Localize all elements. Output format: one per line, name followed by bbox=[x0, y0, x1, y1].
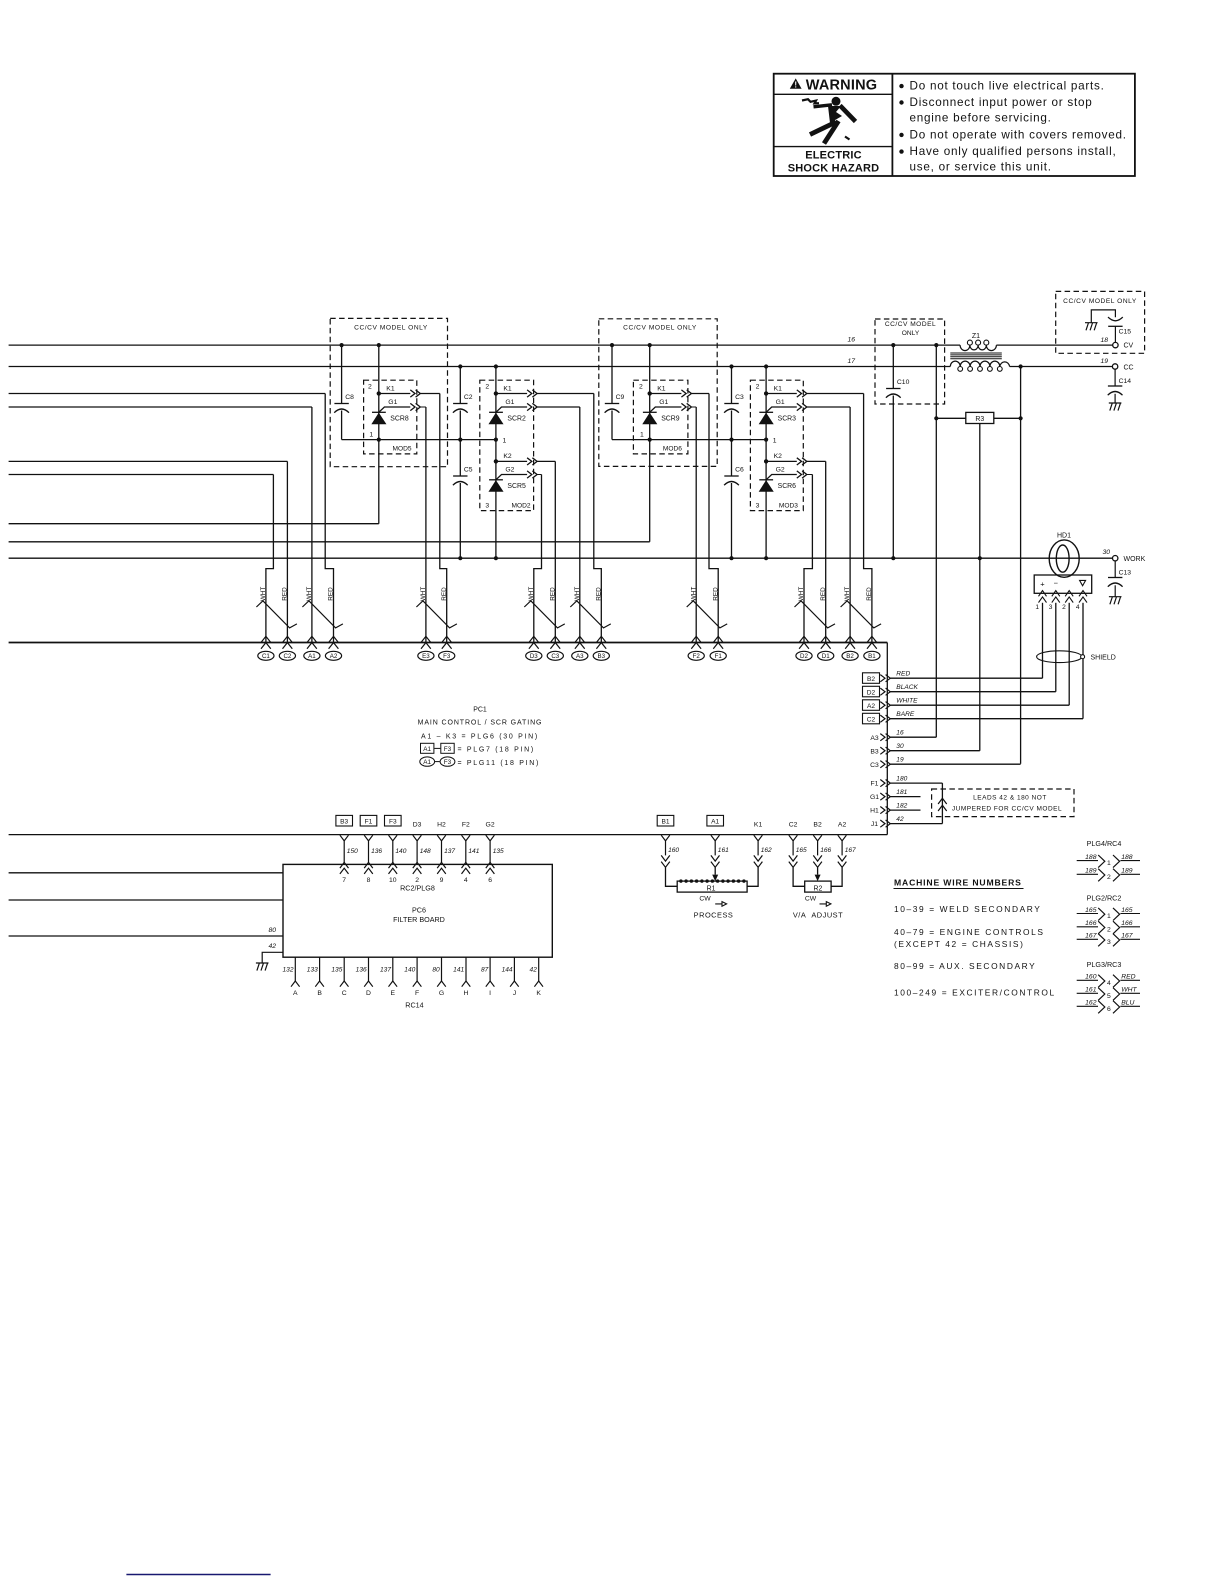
svg-text:136: 136 bbox=[371, 848, 382, 855]
svg-text:RED: RED bbox=[441, 587, 448, 601]
C6 bottom lead bbox=[731, 483, 733, 558]
WHT label D3 bbox=[528, 587, 535, 602]
pin F1 bbox=[710, 636, 726, 660]
pin D1 bbox=[818, 636, 834, 660]
warning header divider bbox=[774, 93, 893, 95]
RED label C2 bbox=[282, 587, 289, 601]
svg-text:(EXCEPT 42 = CHASSIS): (EXCEPT 42 = CHASSIS) bbox=[894, 939, 1025, 949]
svg-text:1: 1 bbox=[1107, 860, 1111, 867]
svg-text:MAIN CONTROL / SCR GATING: MAIN CONTROL / SCR GATING bbox=[418, 720, 543, 727]
MOD5 box bbox=[364, 380, 417, 454]
SCR9 gate lead G1 bbox=[650, 407, 682, 412]
svg-text:1: 1 bbox=[1107, 913, 1111, 920]
wire drop to pin C1 bbox=[266, 475, 274, 643]
pin bus line bbox=[9, 642, 888, 644]
terminal CV (18) bbox=[1113, 342, 1118, 347]
svg-text:A1: A1 bbox=[423, 746, 431, 753]
svg-text:G2: G2 bbox=[776, 466, 785, 473]
pin A1 bbox=[304, 636, 320, 660]
C3-C6 middle lead bbox=[731, 411, 733, 477]
svg-text:132: 132 bbox=[282, 967, 293, 974]
Z1 primary coil bbox=[960, 345, 996, 351]
svg-text:4: 4 bbox=[1076, 604, 1080, 611]
warning triangle icon bbox=[790, 78, 802, 88]
svg-text:167: 167 bbox=[1121, 933, 1133, 940]
svg-text:A1: A1 bbox=[423, 759, 431, 766]
svg-text:K1: K1 bbox=[386, 385, 395, 392]
PC6 bottom pin D bbox=[368, 957, 370, 981]
dash bbox=[434, 747, 440, 749]
wire 160 to R1 bbox=[666, 868, 678, 887]
pin A2 bbox=[325, 636, 341, 660]
wire to A1 bbox=[9, 406, 312, 408]
svg-text:D: D bbox=[366, 990, 371, 997]
PC6 bottom pin I bbox=[489, 957, 491, 981]
R3 right lead bbox=[994, 417, 1021, 419]
Z1 secondary coil bbox=[950, 361, 1009, 366]
svg-text:C2: C2 bbox=[867, 716, 876, 723]
HD1 triangle mark bbox=[1080, 580, 1086, 585]
R3 center tap vertical bbox=[979, 424, 981, 751]
svg-text:K1: K1 bbox=[754, 822, 763, 829]
shield ellipse bbox=[1037, 651, 1082, 663]
svg-text:182: 182 bbox=[896, 802, 907, 809]
svg-text:ELECTRIC: ELECTRIC bbox=[805, 150, 862, 162]
wire 42 to chassis bbox=[262, 952, 283, 963]
svg-text:R2: R2 bbox=[813, 885, 822, 892]
svg-text:161: 161 bbox=[1085, 987, 1097, 994]
C2 top lead bbox=[459, 367, 461, 404]
SCR5 G2 wire bbox=[537, 474, 541, 476]
svg-text:D1: D1 bbox=[822, 653, 830, 660]
SCR9 vertical bbox=[649, 345, 651, 542]
svg-text:JUMPERED FOR CC/CV MODEL: JUMPERED FOR CC/CV MODEL bbox=[952, 805, 1062, 812]
svg-text:BLACK: BLACK bbox=[896, 684, 918, 691]
svg-text:A2: A2 bbox=[838, 822, 847, 829]
SCR SCR6 bbox=[759, 480, 773, 492]
svg-text:100–249 = EXCITER/CONTROL: 100–249 = EXCITER/CONTROL bbox=[894, 987, 1056, 997]
svg-text:RED: RED bbox=[595, 587, 602, 601]
twisted pair E3/F3 bbox=[416, 601, 457, 628]
PC6 bottom pin K bbox=[538, 957, 540, 981]
electric shock pictogram bbox=[802, 97, 856, 143]
svg-text:G1: G1 bbox=[505, 399, 514, 406]
warning box divider bbox=[891, 74, 893, 176]
PC6 top pin B3/7 bbox=[336, 815, 353, 826]
PC6 bottom pin B bbox=[319, 957, 321, 981]
ground at C15 bbox=[1085, 323, 1098, 331]
wire 17 tap vertical bbox=[1020, 367, 1022, 764]
svg-text:CC/CV MODEL ONLY: CC/CV MODEL ONLY bbox=[354, 325, 428, 332]
svg-text:F: F bbox=[415, 990, 419, 997]
PC1 pin C2 row bbox=[863, 713, 880, 724]
svg-text:MACHINE WIRE NUMBERS: MACHINE WIRE NUMBERS bbox=[894, 878, 1022, 888]
row wire 30 bbox=[890, 750, 980, 752]
PC6 left wire 2 bbox=[9, 899, 283, 901]
svg-text:PC1: PC1 bbox=[473, 707, 487, 714]
C14 ground lead bbox=[1114, 394, 1116, 403]
pin F3 bbox=[439, 636, 455, 660]
svg-text:16: 16 bbox=[896, 729, 904, 736]
svg-text:RED: RED bbox=[1121, 974, 1135, 981]
SCR8 G1 wire bbox=[420, 406, 426, 408]
svg-text:= PLG11 (18 PIN): = PLG11 (18 PIN) bbox=[458, 760, 541, 767]
capacitor C10 bbox=[886, 389, 901, 398]
wire drop to pin A3 bbox=[579, 407, 581, 643]
CC/CV MODEL ONLY box around MOD5 bbox=[330, 318, 447, 466]
MOD6-MOD3 pin1 wire bbox=[612, 439, 766, 441]
svg-text:137: 137 bbox=[444, 848, 455, 855]
capacitor C9 bbox=[605, 404, 620, 413]
PLG11 row bbox=[420, 757, 435, 766]
svg-text:150: 150 bbox=[347, 848, 358, 855]
svg-text:6: 6 bbox=[488, 877, 492, 884]
SCR3/SCR6 vertical bbox=[765, 367, 767, 559]
jumper 180-42 bbox=[941, 783, 943, 824]
svg-text:136: 136 bbox=[356, 967, 367, 974]
svg-text:C3: C3 bbox=[735, 394, 744, 401]
svg-text:A3: A3 bbox=[576, 653, 584, 660]
PC1 pin B2 row bbox=[863, 673, 880, 684]
svg-text:F1: F1 bbox=[871, 781, 879, 788]
SCR2/SCR5 vertical bbox=[495, 367, 497, 559]
svg-text:SHIELD: SHIELD bbox=[1091, 655, 1116, 662]
svg-text:G1: G1 bbox=[388, 399, 397, 406]
svg-text:18: 18 bbox=[1100, 337, 1108, 344]
SCR3 cathode lead K1 bbox=[766, 393, 797, 395]
PC6 bottom pin A bbox=[294, 957, 296, 981]
HD1 pin 4 wire bbox=[1082, 603, 1084, 719]
svg-text:167: 167 bbox=[1085, 933, 1097, 940]
ground at C13 bbox=[1109, 597, 1122, 605]
RED label D1 bbox=[820, 587, 827, 601]
svg-text:WHT: WHT bbox=[260, 587, 267, 602]
svg-text:A1 – K3 = PLG6 (30 PIN): A1 – K3 = PLG6 (30 PIN) bbox=[421, 733, 539, 740]
svg-text:C10: C10 bbox=[897, 379, 910, 386]
svg-text:162: 162 bbox=[761, 847, 772, 854]
row wire 16 bbox=[890, 736, 936, 738]
PC6 bottom pin G bbox=[441, 957, 443, 981]
wire 16 to CV terminal bbox=[996, 344, 1112, 346]
wire 17 to CC terminal bbox=[1010, 366, 1113, 368]
PC6 bottom pin C bbox=[343, 957, 345, 981]
wire 180 bbox=[890, 782, 942, 784]
svg-text:17: 17 bbox=[847, 358, 855, 365]
SCR3 K1 wire bbox=[807, 393, 864, 395]
svg-text:PLG2/RC2: PLG2/RC2 bbox=[1087, 893, 1122, 902]
SCR6 cathode lead K2 bbox=[766, 460, 797, 462]
WHT label B2 bbox=[844, 587, 851, 602]
svg-text:A3: A3 bbox=[870, 735, 879, 742]
HD1 pin 1 wire bbox=[1042, 603, 1044, 678]
svg-text:C15: C15 bbox=[1119, 329, 1132, 336]
svg-text:WHT: WHT bbox=[1121, 987, 1137, 994]
svg-text:B: B bbox=[317, 990, 322, 997]
plug row 6 bbox=[1077, 1005, 1098, 1007]
svg-text:CW: CW bbox=[699, 896, 711, 903]
svg-text:RC2/PLG8: RC2/PLG8 bbox=[400, 884, 435, 893]
svg-text:2: 2 bbox=[415, 877, 419, 884]
svg-text:engine before servicing.: engine before servicing. bbox=[910, 112, 1052, 125]
WHT label A3 bbox=[574, 587, 581, 602]
svg-text:2: 2 bbox=[1107, 926, 1111, 933]
svg-text:148: 148 bbox=[420, 848, 431, 855]
svg-text:B2: B2 bbox=[813, 822, 822, 829]
SCR SCR5 bbox=[489, 480, 503, 492]
svg-text:189: 189 bbox=[1121, 868, 1133, 875]
row wire 19 bbox=[890, 763, 1020, 765]
svg-text:165: 165 bbox=[1121, 907, 1133, 914]
C9 top lead bbox=[611, 345, 613, 403]
PC1 bus vertical bbox=[886, 643, 888, 835]
svg-text:7: 7 bbox=[342, 877, 346, 884]
svg-text:PROCESS: PROCESS bbox=[694, 910, 734, 919]
svg-text:D2: D2 bbox=[867, 689, 876, 696]
svg-text:162: 162 bbox=[1085, 1000, 1097, 1007]
wire drop to pin B3 bbox=[594, 394, 602, 643]
pin B2 bbox=[842, 636, 858, 660]
SCR9 G1 wire bbox=[692, 406, 697, 408]
SCR8 K1 chevrons bbox=[410, 390, 420, 397]
HD1 pin 3 wire bbox=[1055, 603, 1057, 692]
wire drop to pin D1 bbox=[825, 461, 827, 642]
svg-text:SCR3: SCR3 bbox=[778, 416, 797, 423]
pin B3 bbox=[593, 636, 609, 660]
footer rule bbox=[126, 1574, 270, 1576]
svg-text:A2: A2 bbox=[330, 653, 338, 660]
wire drop to pin A2 bbox=[325, 394, 333, 643]
svg-text:CV: CV bbox=[1124, 343, 1134, 350]
svg-text:C6: C6 bbox=[735, 467, 744, 474]
C9 bottom lead bbox=[611, 411, 613, 440]
svg-text:G2: G2 bbox=[486, 822, 495, 829]
svg-text:166: 166 bbox=[820, 847, 831, 854]
svg-text:F2: F2 bbox=[462, 822, 470, 829]
wire 167 to R2 bbox=[831, 868, 842, 887]
svg-text:WHT: WHT bbox=[574, 587, 581, 602]
PC6 bottom pin F bbox=[416, 957, 418, 981]
HD1 pin 4 chevrons bbox=[1079, 591, 1087, 603]
R1 CW arrow bbox=[715, 902, 726, 907]
svg-text:R3: R3 bbox=[975, 416, 984, 423]
svg-text:B2: B2 bbox=[867, 676, 875, 683]
svg-text:140: 140 bbox=[404, 967, 415, 974]
WHT label C1 bbox=[260, 587, 267, 602]
svg-text:C14: C14 bbox=[1119, 378, 1132, 385]
svg-text:B3: B3 bbox=[598, 653, 606, 660]
svg-text:3: 3 bbox=[756, 503, 760, 510]
svg-text:135: 135 bbox=[493, 848, 504, 855]
svg-text:WHT: WHT bbox=[528, 587, 535, 602]
HD1 pin 3 chevrons bbox=[1052, 591, 1060, 603]
wire drop to pin E3 bbox=[425, 407, 427, 643]
svg-text:180: 180 bbox=[896, 775, 907, 782]
twisted pair A3/B3 bbox=[570, 601, 611, 628]
wire 30 WORK bus bbox=[9, 557, 1113, 559]
row wire RED bbox=[890, 677, 1042, 679]
control pin A1 bbox=[707, 815, 724, 826]
svg-text:Z1: Z1 bbox=[972, 333, 980, 340]
svg-text:B1: B1 bbox=[868, 653, 876, 660]
wire drop to pin C3 bbox=[554, 461, 556, 642]
svg-text:167: 167 bbox=[845, 847, 856, 854]
svg-text:C: C bbox=[342, 990, 347, 997]
svg-text:80: 80 bbox=[432, 967, 440, 974]
SCR3 gate lead G1 bbox=[766, 407, 797, 412]
potentiometer R1 bbox=[677, 881, 747, 892]
svg-text:MOD6: MOD6 bbox=[663, 445, 682, 452]
WHT label D2 bbox=[798, 587, 805, 602]
pin C2 bbox=[279, 636, 295, 660]
C2-C5 middle lead bbox=[459, 411, 461, 477]
terminal CC (19) bbox=[1112, 364, 1117, 369]
svg-text:42: 42 bbox=[268, 943, 276, 950]
svg-text:WORK: WORK bbox=[1124, 556, 1146, 563]
svg-text:SHOCK HAZARD: SHOCK HAZARD bbox=[788, 163, 880, 175]
svg-text:use, or service this unit.: use, or service this unit. bbox=[910, 161, 1052, 174]
svg-text:F3: F3 bbox=[443, 653, 451, 660]
svg-text:= PLG7 (18 PIN): = PLG7 (18 PIN) bbox=[458, 747, 535, 754]
svg-text:H1: H1 bbox=[870, 808, 879, 815]
PC6 bottom pin E bbox=[392, 957, 394, 981]
wire drop to pin D3 bbox=[534, 475, 542, 643]
svg-text:D3: D3 bbox=[530, 653, 538, 660]
C3 top lead bbox=[731, 367, 733, 404]
SCR2 G1 wire bbox=[537, 406, 580, 408]
WHT label F2 bbox=[690, 587, 697, 602]
svg-text:144: 144 bbox=[502, 967, 513, 974]
svg-text:BARE: BARE bbox=[896, 711, 915, 718]
svg-text:HD1: HD1 bbox=[1057, 533, 1071, 540]
plug row 1 bbox=[1077, 913, 1098, 915]
svg-text:BLU: BLU bbox=[1121, 1000, 1134, 1007]
svg-text:42: 42 bbox=[896, 816, 904, 823]
svg-text:A: A bbox=[293, 990, 298, 997]
svg-text:F2: F2 bbox=[693, 653, 701, 660]
svg-text:160: 160 bbox=[1085, 974, 1097, 981]
svg-text:G1: G1 bbox=[659, 399, 668, 406]
svg-text:B3: B3 bbox=[870, 748, 879, 755]
wire 182 stub bbox=[890, 809, 920, 811]
plug row 2 bbox=[1077, 873, 1098, 875]
svg-text:2: 2 bbox=[485, 384, 489, 391]
SCR9 K1 wire bbox=[692, 393, 710, 395]
svg-text:4: 4 bbox=[1107, 980, 1111, 987]
PC1 pin A2 row bbox=[863, 700, 880, 711]
wire to C2 bbox=[9, 460, 288, 462]
R1 wiper arrow bbox=[712, 875, 718, 882]
SCR5 gate lead G2 bbox=[496, 475, 527, 480]
chassis ground at PC6 bbox=[256, 963, 269, 971]
PC6 bottom pin H bbox=[465, 957, 467, 981]
wire drop to pin F1 bbox=[709, 394, 718, 643]
svg-text:V/A ADJUST: V/A ADJUST bbox=[793, 910, 843, 919]
wire drop to pin F3 bbox=[440, 394, 447, 643]
svg-text:G2: G2 bbox=[505, 466, 514, 473]
wire 162 to R1 bbox=[747, 868, 758, 887]
svg-text:3: 3 bbox=[485, 503, 489, 510]
PC6 top pin F1/8 bbox=[360, 815, 377, 826]
svg-text:!: ! bbox=[794, 81, 797, 90]
jumper note box bbox=[932, 789, 1074, 817]
SCR6 K2 chevrons bbox=[797, 458, 807, 465]
svg-text:SCR2: SCR2 bbox=[507, 416, 526, 423]
MOD5-MOD2 pin1 wire bbox=[342, 439, 496, 441]
svg-text:CC/CV MODEL ONLY: CC/CV MODEL ONLY bbox=[623, 325, 697, 332]
svg-text:G1: G1 bbox=[870, 794, 879, 801]
plug row 5 bbox=[1077, 992, 1098, 994]
R3 left lead bbox=[936, 417, 966, 419]
svg-text:C8: C8 bbox=[345, 394, 354, 401]
SCR6 K2 wire bbox=[807, 460, 826, 462]
wire 16 top bus bbox=[9, 344, 961, 346]
C10 bottom lead bbox=[892, 396, 894, 559]
row wire WHITE bbox=[890, 704, 1069, 706]
svg-text:RED: RED bbox=[820, 587, 827, 601]
svg-text:−: − bbox=[1054, 578, 1059, 587]
svg-text:Have only qualified persons in: Have only qualified persons install, bbox=[910, 145, 1117, 158]
svg-text:80–99 = AUX. SECONDARY: 80–99 = AUX. SECONDARY bbox=[894, 961, 1036, 971]
PC6 bottom pin J bbox=[513, 957, 515, 981]
capacitor C14 bbox=[1114, 369, 1116, 386]
dash bbox=[435, 761, 440, 763]
svg-text:K2: K2 bbox=[503, 453, 512, 460]
twisted pair F2/F1 bbox=[687, 601, 728, 628]
warning box frame bbox=[774, 74, 1135, 176]
CC/CV MODEL ONLY box around C15 bbox=[1056, 291, 1145, 353]
SCR6 G2 wire bbox=[807, 474, 813, 476]
wire to C1 bbox=[9, 474, 274, 476]
svg-text:9: 9 bbox=[440, 877, 444, 884]
plug row 3 bbox=[1077, 938, 1098, 940]
svg-text:80: 80 bbox=[268, 927, 276, 934]
svg-text:PLG4/RC4: PLG4/RC4 bbox=[1087, 839, 1122, 848]
wire drop to pin B1 bbox=[864, 394, 872, 643]
svg-text:87: 87 bbox=[481, 967, 489, 974]
svg-text:K1: K1 bbox=[503, 385, 512, 392]
pin C3 bbox=[547, 636, 563, 660]
svg-text:J: J bbox=[513, 990, 516, 997]
R1 element dots bbox=[679, 879, 682, 882]
svg-text:F3: F3 bbox=[444, 746, 452, 753]
HD1 pin 2 chevrons bbox=[1065, 591, 1073, 603]
svg-text:42: 42 bbox=[530, 967, 538, 974]
warning bullet list bbox=[899, 84, 903, 88]
svg-text:FILTER BOARD: FILTER BOARD bbox=[393, 915, 445, 924]
wire 16 tap vertical bbox=[935, 345, 937, 737]
svg-text:188: 188 bbox=[1121, 854, 1133, 861]
svg-text:C1: C1 bbox=[262, 653, 270, 660]
svg-text:CC: CC bbox=[1124, 364, 1134, 371]
twisted pair C1/C2 bbox=[256, 601, 297, 628]
svg-text:WHT: WHT bbox=[798, 587, 805, 602]
svg-text:WHT: WHT bbox=[420, 587, 427, 602]
wire 17 bus bbox=[9, 366, 951, 368]
svg-text:RC14: RC14 bbox=[405, 1001, 423, 1010]
control pin B1 bbox=[657, 815, 674, 826]
capacitor C6 bbox=[724, 476, 739, 485]
svg-text:2: 2 bbox=[1107, 874, 1111, 881]
svg-text:2: 2 bbox=[756, 384, 760, 391]
pin A3 bbox=[572, 636, 588, 660]
svg-text:WHITE: WHITE bbox=[896, 697, 918, 704]
plug row 2 bbox=[1077, 926, 1098, 928]
twisted pair D3/C3 bbox=[524, 601, 565, 628]
MOD3 box bbox=[750, 380, 803, 510]
wire 166 wiper lead bbox=[817, 868, 819, 875]
svg-text:WHT: WHT bbox=[844, 587, 851, 602]
SCR5 K2 wire bbox=[537, 460, 555, 462]
